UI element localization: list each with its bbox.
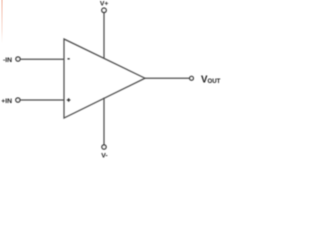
svg-text:V+: V+ (100, 1, 109, 8)
terminal circle -IN (16, 57, 20, 61)
svg-text:V-: V- (101, 153, 107, 160)
svg-text:+IN: +IN (1, 98, 12, 105)
wire: op-amp output to VOUT terminal (145, 77, 190, 79)
op-amp U1 triangle body (64, 39, 145, 118)
terminal circle V+ (102, 8, 106, 12)
wire: V- supply to op-amp bottom edge (103, 98, 105, 145)
wire: +IN input to op-amp (21, 99, 64, 101)
non-inverting input plus sign inside op-amp (67, 98, 71, 102)
terminal circle V- (102, 145, 106, 149)
terminal circle +IN (16, 98, 20, 102)
svg-text:-IN: -IN (3, 57, 12, 64)
wire: -IN input to op-amp (21, 58, 64, 60)
inverting input minus sign inside op-amp (68, 58, 70, 59)
terminal circle VOUT (190, 76, 194, 80)
wire: V+ supply to op-amp top edge (103, 13, 105, 59)
